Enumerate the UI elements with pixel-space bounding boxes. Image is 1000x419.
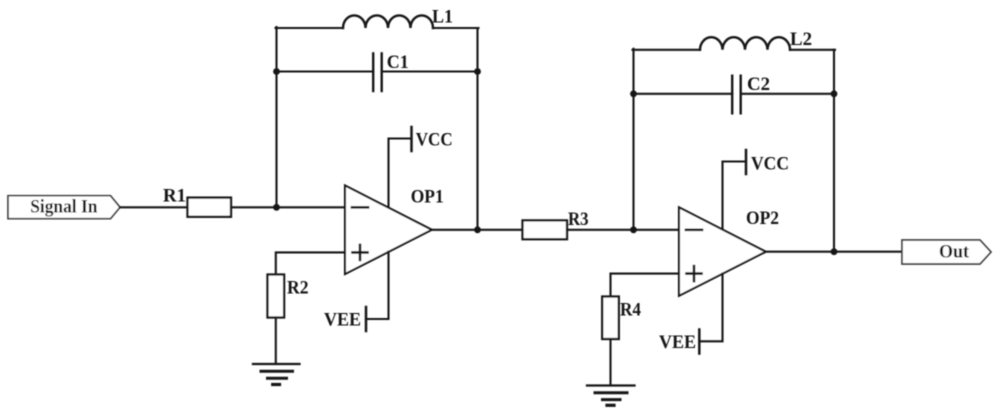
ground stage 1 [253, 364, 300, 385]
svg-text:OP1: OP1 [411, 186, 444, 207]
pin plus OP2 [687, 266, 702, 281]
op-amp U1 OP1 [345, 186, 444, 275]
svg-text:Out: Out [939, 242, 970, 263]
wire R4 to ground [609, 339, 611, 386]
resistor R1 [163, 186, 231, 217]
inductor L2 [700, 29, 812, 50]
inductor L1 [343, 7, 453, 29]
svg-text:VEE: VEE [324, 309, 361, 330]
svg-text:VCC: VCC [416, 130, 453, 151]
wire R2 to ground [275, 318, 277, 365]
wire Signal In to R1 [120, 206, 188, 208]
wire OP1 output to R3 [432, 229, 523, 231]
node output stage 2 [831, 248, 838, 255]
wire R1 to OP1 inverting input [231, 206, 345, 208]
svg-text:VEE: VEE [659, 332, 696, 353]
svg-text:R3: R3 [568, 209, 589, 230]
wire top left segment stage 2 [633, 49, 701, 51]
power VCC OP2 [723, 150, 790, 229]
wire left feedback riser stage 2 [632, 49, 634, 230]
port Signal In [8, 196, 120, 219]
svg-text:R1: R1 [163, 186, 186, 207]
svg-text:Signal In: Signal In [30, 197, 98, 218]
wire top right segment stage 2 [790, 49, 835, 51]
resistor R3 [523, 209, 589, 239]
port Out [902, 240, 991, 264]
wire right feedback riser stage 1 [476, 28, 478, 230]
svg-text:C2: C2 [747, 74, 770, 95]
pin plus OP1 [353, 245, 368, 260]
wire C1 right segment [382, 70, 478, 72]
capacitor C1 [373, 52, 409, 91]
pin minus OP1 [352, 206, 368, 209]
capacitor C2 [732, 74, 770, 113]
wire C2 right segment [741, 93, 834, 95]
ground stage 2 [587, 386, 635, 406]
resistor R2 [268, 275, 309, 318]
wire top right segment stage 1 [433, 27, 479, 29]
wire left feedback riser stage 1 [275, 27, 277, 207]
pin minus OP2 [686, 229, 702, 232]
wire top left segment stage 1 [276, 27, 344, 29]
svg-text:L2: L2 [790, 29, 812, 50]
node input stage 2 [630, 226, 637, 233]
wire OP2 plus input to R4 [611, 274, 680, 297]
power VCC OP1 [389, 127, 453, 207]
svg-text:VCC: VCC [751, 154, 789, 175]
node C2 right junction [831, 90, 838, 97]
wire R3 to OP2 inverting input [567, 229, 679, 231]
node C1 left junction [273, 68, 280, 75]
wire OP1 plus input to R2 [276, 252, 345, 274]
wire right feedback riser stage 2 [833, 50, 835, 252]
node C2 left junction [630, 90, 637, 97]
power VEE OP1 [324, 252, 389, 332]
svg-text:OP2: OP2 [746, 208, 779, 229]
wire OP2 output to Out port [766, 251, 902, 253]
svg-text:R2: R2 [287, 278, 309, 299]
node input stage 1 [273, 204, 280, 211]
wire C1 left segment [277, 70, 374, 72]
node output stage 1 [474, 226, 481, 233]
power VEE OP2 [659, 274, 723, 354]
op-amp U2 OP2 [679, 207, 779, 295]
resistor R4 [602, 297, 641, 340]
svg-text:C1: C1 [387, 52, 409, 73]
svg-text:R4: R4 [620, 300, 641, 321]
svg-text:L1: L1 [432, 7, 453, 28]
node C1 right junction [474, 68, 481, 75]
wire C2 left segment [634, 93, 733, 95]
